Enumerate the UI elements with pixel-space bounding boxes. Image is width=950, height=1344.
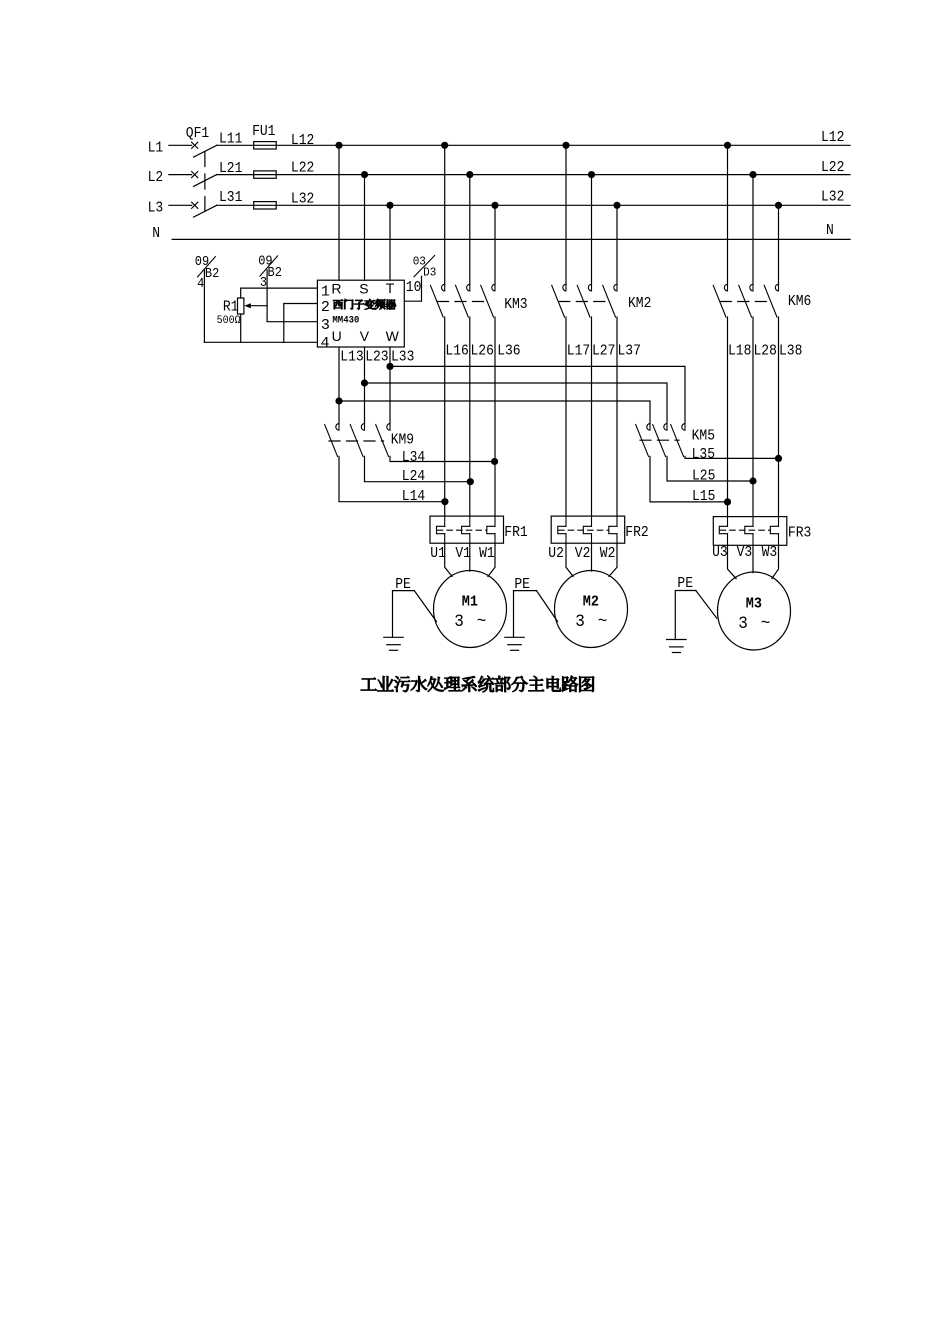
svg-text:D3: D3 (423, 265, 436, 280)
wire L2 input (169, 174, 192, 176)
contactor KM6 pole 3 (775, 284, 778, 291)
svg-text:L22: L22 (821, 160, 844, 176)
contactor KM5 pole 1 (647, 424, 650, 431)
junction L34/W1 (491, 458, 498, 465)
ground (M1 PE) (384, 636, 403, 638)
svg-text:L14: L14 (402, 489, 425, 505)
wire M2 lead U (566, 543, 573, 576)
wire L1 input (169, 144, 192, 146)
wire KM3 pole2 to FR1 (V1 column) (469, 317, 471, 516)
ground (M3 PE) (667, 639, 687, 641)
svg-text:L23: L23 (365, 350, 388, 366)
wire R1 wiper arrow (250, 305, 267, 307)
wire PE M1 (393, 591, 415, 638)
svg-text:M1: M1 (462, 594, 478, 611)
fuse FU1 pole 3 (254, 202, 277, 209)
wire L13 feed to KM5 pole1 (339, 401, 650, 424)
svg-text:L32: L32 (291, 192, 314, 208)
contactor KM5 linkage (dashed) (640, 439, 679, 441)
wire through FR3 pole 3 (778, 517, 780, 527)
wire ref B2-4 to pin4 net (203, 270, 205, 342)
junction bus at x=495.0 (491, 202, 498, 209)
thermal relay FR2 element pole 3 (609, 526, 617, 533)
svg-text:4: 4 (321, 335, 330, 352)
fuse FU1 pole 2 (254, 171, 277, 178)
junction L15/U3 (724, 498, 731, 505)
wire bus to KM2 pole 2 (591, 175, 593, 285)
wire KM2 pole2 to FR2 (V2 column) (591, 317, 593, 516)
wire L12 bus to inverter R (338, 145, 340, 280)
wire M2 lead V (591, 543, 593, 571)
wire bus L22 (217, 174, 850, 176)
thermal relay FR3 linkage (dashed) (720, 529, 770, 531)
svg-text:L1: L1 (148, 141, 164, 157)
svg-text:MM430: MM430 (332, 314, 359, 326)
junction L35/W3 (775, 455, 782, 462)
junction on L12 at R column (335, 142, 342, 149)
svg-text:W: W (386, 328, 400, 344)
svg-text:10: 10 (406, 281, 422, 297)
wire M3 lead V (752, 545, 754, 572)
junction bus at x=591.5 (588, 171, 595, 178)
junction bus at x=444.7 (441, 142, 448, 149)
thermal relay FR2 element pole 1 (558, 526, 566, 533)
svg-text:L27: L27 (592, 344, 615, 360)
contactor KM9 pole 3 (387, 424, 390, 431)
svg-text:L36: L36 (497, 344, 520, 360)
potentiometer R1 (238, 298, 244, 314)
contactor KM3 pole 3 (492, 284, 495, 291)
wire L35: KM5 pole3 to W3 column (685, 456, 779, 458)
wire inverter V down to KM9 pole2 (364, 347, 366, 424)
wire bus L12 (217, 144, 850, 146)
thermal relay FR1 element pole 1 (437, 526, 445, 533)
wire pin4 net (204, 341, 317, 343)
svg-text:FU1: FU1 (252, 124, 275, 140)
wire pin10 to ref D3 (404, 276, 421, 301)
contactor KM2 linkage (dashed) (559, 301, 611, 303)
svg-text:R: R (331, 281, 341, 297)
svg-text:L35: L35 (692, 447, 715, 463)
wire PE M2 to frame (537, 591, 558, 622)
ground (M2 PE) (505, 636, 524, 638)
svg-text:U: U (332, 328, 342, 344)
wire inverter W down to KM9 pole3 (389, 347, 391, 424)
motor M1 circle (434, 571, 507, 648)
wire pin2 jumper to pin4 net (284, 304, 318, 343)
junction bus at x=778.5 (775, 202, 782, 209)
wire PE M1 to frame (414, 591, 436, 622)
svg-text:V: V (360, 328, 370, 344)
svg-text:QF1: QF1 (186, 126, 209, 142)
wire KM3 pole1 to FR1 (U1 column) (444, 317, 446, 516)
svg-text:S: S (359, 281, 368, 297)
thermal relay FR1 element pole 3 (487, 526, 495, 533)
wire KM2 pole3 to FR2 (W2 column) (616, 317, 618, 516)
svg-text:3: 3 (454, 612, 464, 632)
svg-text:FR3: FR3 (788, 526, 811, 542)
breaker QF1 linkage (dashed) (204, 152, 206, 218)
svg-text:L15: L15 (692, 490, 715, 506)
contactor KM9 pole 1 (336, 424, 339, 431)
svg-text:L17: L17 (567, 344, 590, 360)
wire KM2 pole1 to FR2 (U2 column) (565, 317, 567, 516)
thermal relay FR2 linkage (dashed) (559, 529, 609, 531)
svg-text:KM5: KM5 (692, 429, 715, 445)
svg-text:L2: L2 (148, 170, 164, 186)
svg-text:L12: L12 (821, 130, 844, 146)
wire through FR3 pole 1 (727, 517, 729, 527)
wire L15: KM5 pole1 to U3 column (650, 456, 728, 502)
svg-text:L13: L13 (340, 350, 363, 366)
wire M1 lead V (469, 543, 471, 571)
wire bus to KM3 pole 1 (444, 145, 446, 284)
svg-text:B2: B2 (205, 265, 219, 281)
wire bus to KM2 pole 1 (565, 145, 567, 284)
wire bus to KM6 pole 2 (752, 175, 754, 285)
breaker QF1 pole 3 (192, 202, 198, 208)
svg-text:L32: L32 (821, 190, 844, 206)
wire L14: KM9 pole1 to U1 column (339, 456, 445, 501)
svg-text:500Ω: 500Ω (217, 315, 242, 328)
wire PE M2 (514, 591, 537, 638)
junction L23 (361, 379, 368, 386)
wire bus to KM2 pole 3 (616, 205, 618, 284)
wire ref B2-3 to pin3 (267, 270, 317, 322)
svg-text:W1: W1 (479, 546, 495, 562)
svg-text:U1: U1 (430, 546, 446, 562)
svg-text:PE: PE (677, 576, 693, 592)
contactor KM3 linkage (dashed) (438, 301, 490, 303)
wire KM6 pole2 to FR3 (V3 column) (752, 317, 754, 516)
contactor KM6 linkage (dashed) (720, 301, 772, 303)
svg-text:V2: V2 (575, 546, 591, 562)
svg-text:~: ~ (761, 614, 771, 634)
svg-text:3: 3 (575, 612, 585, 632)
wire through FR2 pole 3 (616, 516, 618, 526)
svg-text:L34: L34 (402, 450, 425, 466)
svg-text:KM3: KM3 (504, 298, 527, 314)
junction on L32 at T column (386, 202, 393, 209)
wire L23 feed to KM5 pole2 (365, 383, 668, 424)
wire M1 lead W (488, 543, 495, 576)
wire through FR2 pole 2 (591, 516, 593, 526)
contactor KM5 pole 2 (664, 424, 667, 431)
contactor KM9 pole 2 (361, 424, 364, 431)
motor M2 circle (555, 571, 628, 648)
junction L13 (335, 397, 342, 404)
wire through FR1 pole 3 (494, 516, 496, 526)
wire M2 lead W (609, 543, 617, 576)
wire M3 lead W (772, 545, 779, 578)
svg-text:FR2: FR2 (625, 525, 648, 541)
wire L32 bus to inverter T (389, 205, 391, 280)
svg-text:V3: V3 (737, 546, 753, 562)
svg-text:L16: L16 (445, 344, 468, 360)
contactor KM3 pole 2 (467, 284, 470, 291)
thermal relay FR3 element pole 1 (719, 526, 727, 533)
svg-text:N: N (826, 223, 834, 239)
svg-text:W3: W3 (762, 546, 778, 562)
wire through FR1 pole 1 (444, 516, 446, 526)
svg-text:U2: U2 (548, 546, 564, 562)
svg-text:~: ~ (477, 612, 487, 632)
wire bus L32 (217, 204, 850, 206)
wire pin1 to R1 top (241, 288, 318, 298)
wire M3 lead U (728, 545, 737, 578)
wire bus N (172, 238, 850, 240)
wire M1 lead U (445, 543, 452, 576)
junction L24/V1 (467, 478, 474, 485)
svg-text:4: 4 (197, 275, 204, 291)
junction bus at x=727.5 (724, 142, 731, 149)
caption: industrial sewage treatment system partial main circuit diagram (361, 676, 594, 692)
svg-text:KM2: KM2 (628, 296, 651, 312)
thermal relay FR3 box (713, 517, 787, 546)
contactor KM5 pole 3 (682, 424, 685, 431)
wire PE M3 (675, 591, 696, 640)
wire L24: KM9 pole2 to V1 column (365, 456, 471, 481)
wire inverter U down to KM9 pole1 (338, 347, 340, 424)
wire bus to KM6 pole 3 (778, 205, 780, 284)
svg-text:M2: M2 (583, 594, 599, 611)
junction on L22 at S column (361, 171, 368, 178)
svg-text:L31: L31 (219, 190, 242, 206)
breaker QF1 pole 1 (192, 142, 198, 148)
svg-text:L33: L33 (391, 350, 414, 366)
thermal relay FR2 box (551, 516, 625, 543)
fuse FU1 pole 1 (254, 142, 277, 149)
svg-text:L22: L22 (291, 161, 314, 177)
svg-text:~: ~ (598, 612, 608, 632)
wire L22 bus to inverter S (364, 175, 366, 281)
svg-text:FR1: FR1 (504, 525, 527, 541)
junction L14/U1 (441, 498, 448, 505)
thermal relay FR3 element pole 3 (770, 526, 778, 533)
svg-text:3: 3 (738, 614, 748, 634)
wire through FR3 pole 2 (752, 517, 754, 527)
thermal relay FR1 box (430, 516, 504, 543)
svg-text:L28: L28 (754, 344, 777, 360)
svg-text:KM6: KM6 (788, 294, 811, 310)
wire bus to KM6 pole 1 (727, 145, 729, 284)
contactor KM2 pole 2 (588, 284, 591, 291)
svg-text:M3: M3 (746, 596, 762, 613)
svg-text:T: T (386, 280, 395, 296)
svg-text:N: N (152, 226, 160, 242)
inverter name text (Siemens inverter) (333, 299, 396, 309)
contactor KM2 pole 3 (614, 284, 617, 291)
junction bus at x=566.0 (562, 142, 569, 149)
wire KM6 pole3 to FR3 (W3 column) (778, 317, 780, 516)
contactor KM6 pole 1 (724, 284, 727, 291)
motor M3 circle (718, 572, 791, 650)
svg-text:L26: L26 (471, 344, 494, 360)
svg-text:U3: U3 (712, 546, 728, 562)
svg-text:L12: L12 (291, 134, 314, 150)
wire R1 bottom to pin4 net (240, 314, 242, 342)
junction bus at x=617.0 (613, 202, 620, 209)
thermal relay FR2 element pole 2 (583, 526, 591, 533)
junction bus at x=753.0 (749, 171, 756, 178)
svg-text:L3: L3 (148, 201, 164, 217)
contactor KM3 pole 1 (442, 284, 445, 291)
wire through FR1 pole 2 (469, 516, 471, 526)
svg-text:L38: L38 (779, 344, 802, 360)
thermal relay FR1 element pole 2 (462, 526, 470, 533)
contactor KM6 pole 2 (750, 284, 753, 291)
thermal relay FR1 linkage (dashed) (437, 529, 487, 531)
svg-text:R1: R1 (223, 300, 239, 316)
thermal relay FR3 element pole 2 (745, 526, 753, 533)
contactor KM2 pole 1 (563, 284, 566, 291)
wire L25: KM5 pole2 to V3 column (667, 456, 753, 481)
svg-text:V1: V1 (455, 546, 471, 562)
svg-text:L24: L24 (402, 469, 425, 485)
svg-text:L18: L18 (728, 344, 751, 360)
inverter U1 (Siemens MM430) box (317, 280, 404, 347)
junction L33 (386, 363, 393, 370)
wire KM3 pole3 to FR1 (W1 column) (494, 317, 496, 516)
junction bus at x=469.8 (466, 171, 473, 178)
contactor KM9 linkage (dashed) (329, 440, 384, 442)
wire L3 input (169, 204, 192, 206)
wire L34: KM9 pole3 to W1 column (390, 456, 495, 461)
wire through FR2 pole 1 (565, 516, 567, 526)
breaker QF1 pole 2 (192, 172, 198, 178)
svg-text:B2: B2 (268, 264, 282, 280)
svg-text:3: 3 (321, 317, 330, 334)
svg-text:KM9: KM9 (391, 433, 414, 449)
wire L33 feed to KM5 pole3 (390, 366, 685, 423)
wire KM6 pole1 to FR3 (U3 column) (727, 317, 729, 516)
junction L25/V3 (749, 477, 756, 484)
svg-text:L25: L25 (692, 469, 715, 485)
wire bus to KM3 pole 3 (494, 205, 496, 284)
svg-text:2: 2 (321, 299, 330, 316)
svg-text:W2: W2 (600, 547, 616, 563)
svg-text:L37: L37 (618, 344, 641, 360)
wire bus to KM3 pole 2 (469, 175, 471, 285)
wire PE M3 to frame (696, 591, 717, 619)
